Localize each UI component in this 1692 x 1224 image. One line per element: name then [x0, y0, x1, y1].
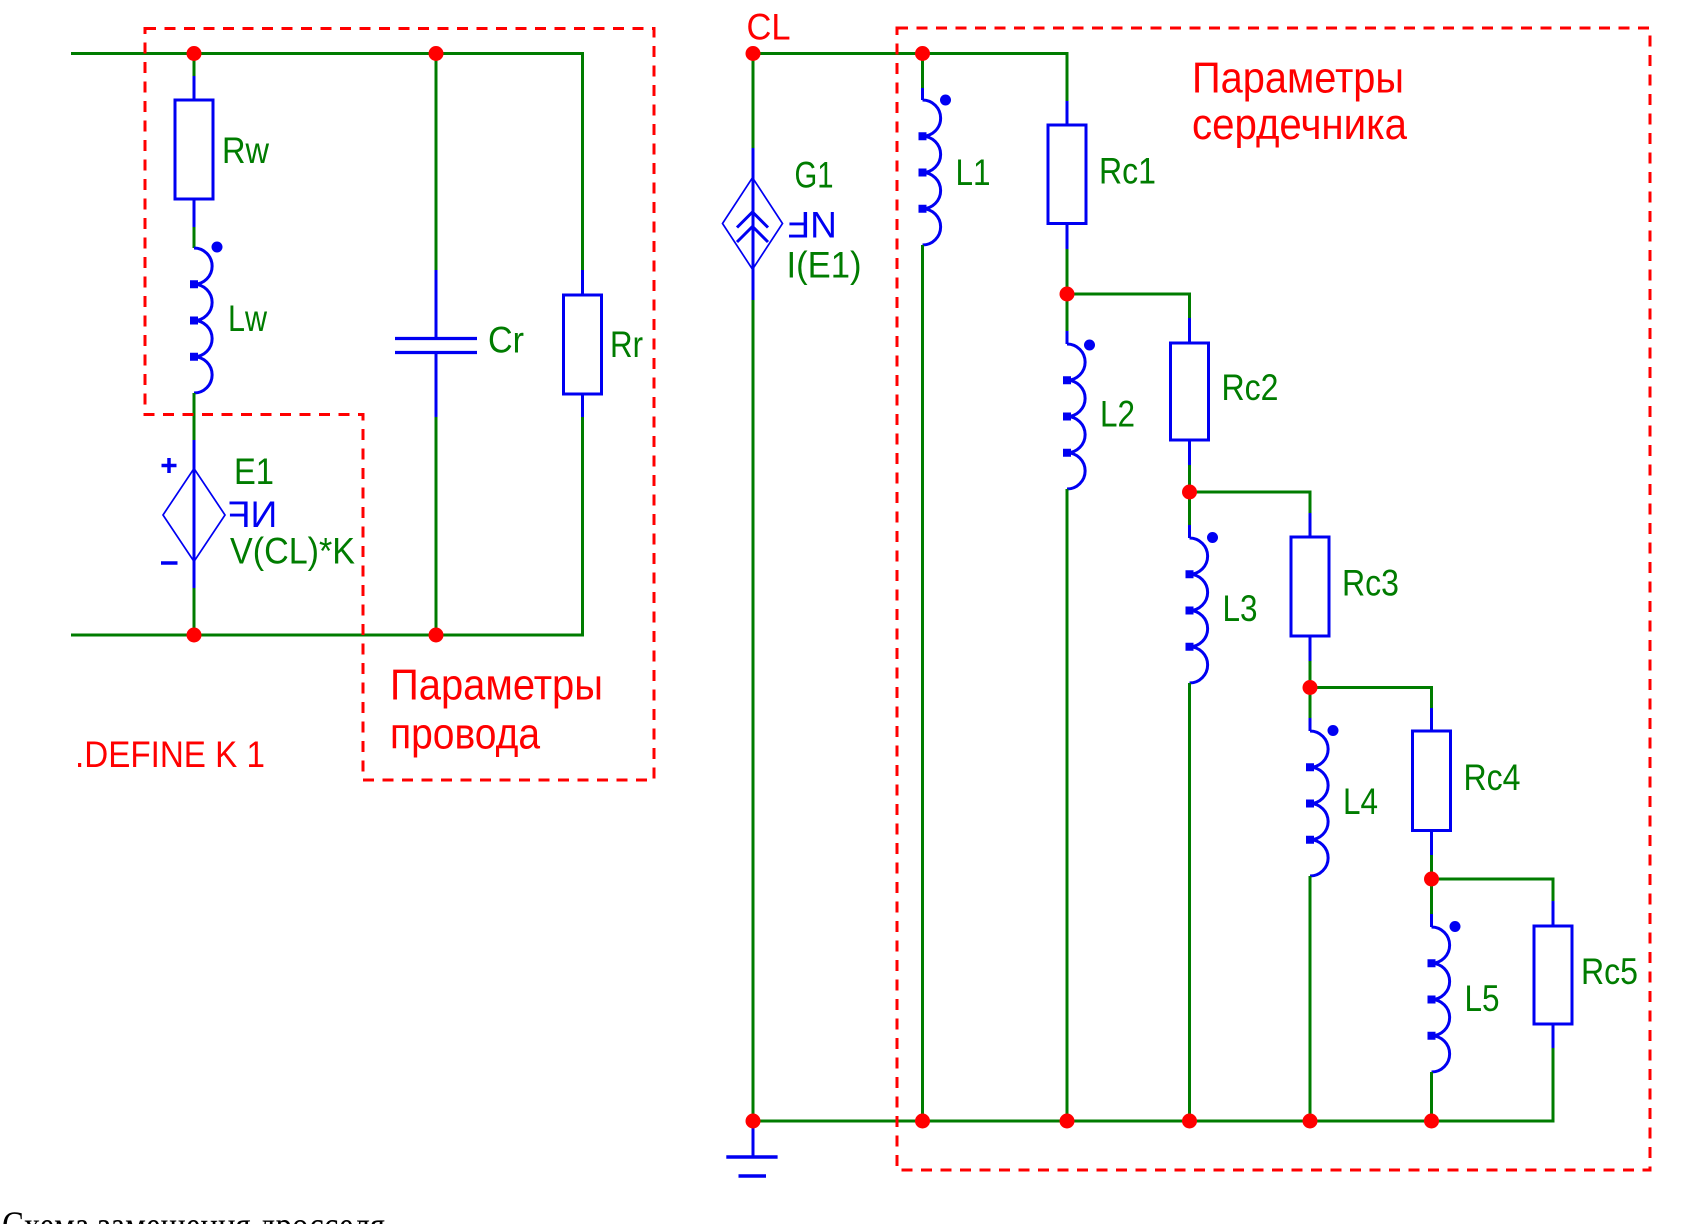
svg-text:Rw: Rw [222, 130, 269, 171]
svg-text:L4: L4 [1343, 781, 1378, 822]
svg-text:сердечника: сердечника [1192, 100, 1407, 149]
svg-text:Rc2: Rc2 [1222, 367, 1279, 408]
svg-text:NF: NF [788, 204, 837, 245]
svg-text:Rr: Rr [610, 324, 643, 365]
svg-text:G1: G1 [795, 155, 834, 196]
svg-text:Rc3: Rc3 [1342, 563, 1399, 604]
svg-text:провода: провода [390, 710, 540, 759]
svg-text:L3: L3 [1223, 588, 1258, 629]
svg-text:Rc1: Rc1 [1099, 151, 1156, 192]
svg-text:.DEFINE K 1: .DEFINE K 1 [75, 734, 265, 775]
svg-text:Параметры: Параметры [390, 661, 603, 710]
svg-text:CL: CL [747, 7, 791, 48]
svg-text:L1: L1 [956, 152, 991, 193]
svg-text:Rc4: Rc4 [1464, 757, 1521, 798]
svg-text:NF: NF [228, 494, 277, 535]
svg-text:Схема замещения дросселя: Схема замещения дросселя [2, 1203, 385, 1224]
svg-text:Lw: Lw [228, 298, 267, 339]
svg-text:Rc5: Rc5 [1581, 951, 1638, 992]
svg-text:L5: L5 [1465, 978, 1500, 1019]
svg-text:L2: L2 [1100, 394, 1135, 435]
svg-text:V(CL)*K: V(CL)*K [230, 531, 355, 572]
svg-text:Cr: Cr [488, 320, 524, 361]
svg-text:Параметры: Параметры [1192, 54, 1404, 103]
svg-text:I(E1): I(E1) [787, 245, 862, 286]
svg-text:E1: E1 [234, 451, 274, 492]
